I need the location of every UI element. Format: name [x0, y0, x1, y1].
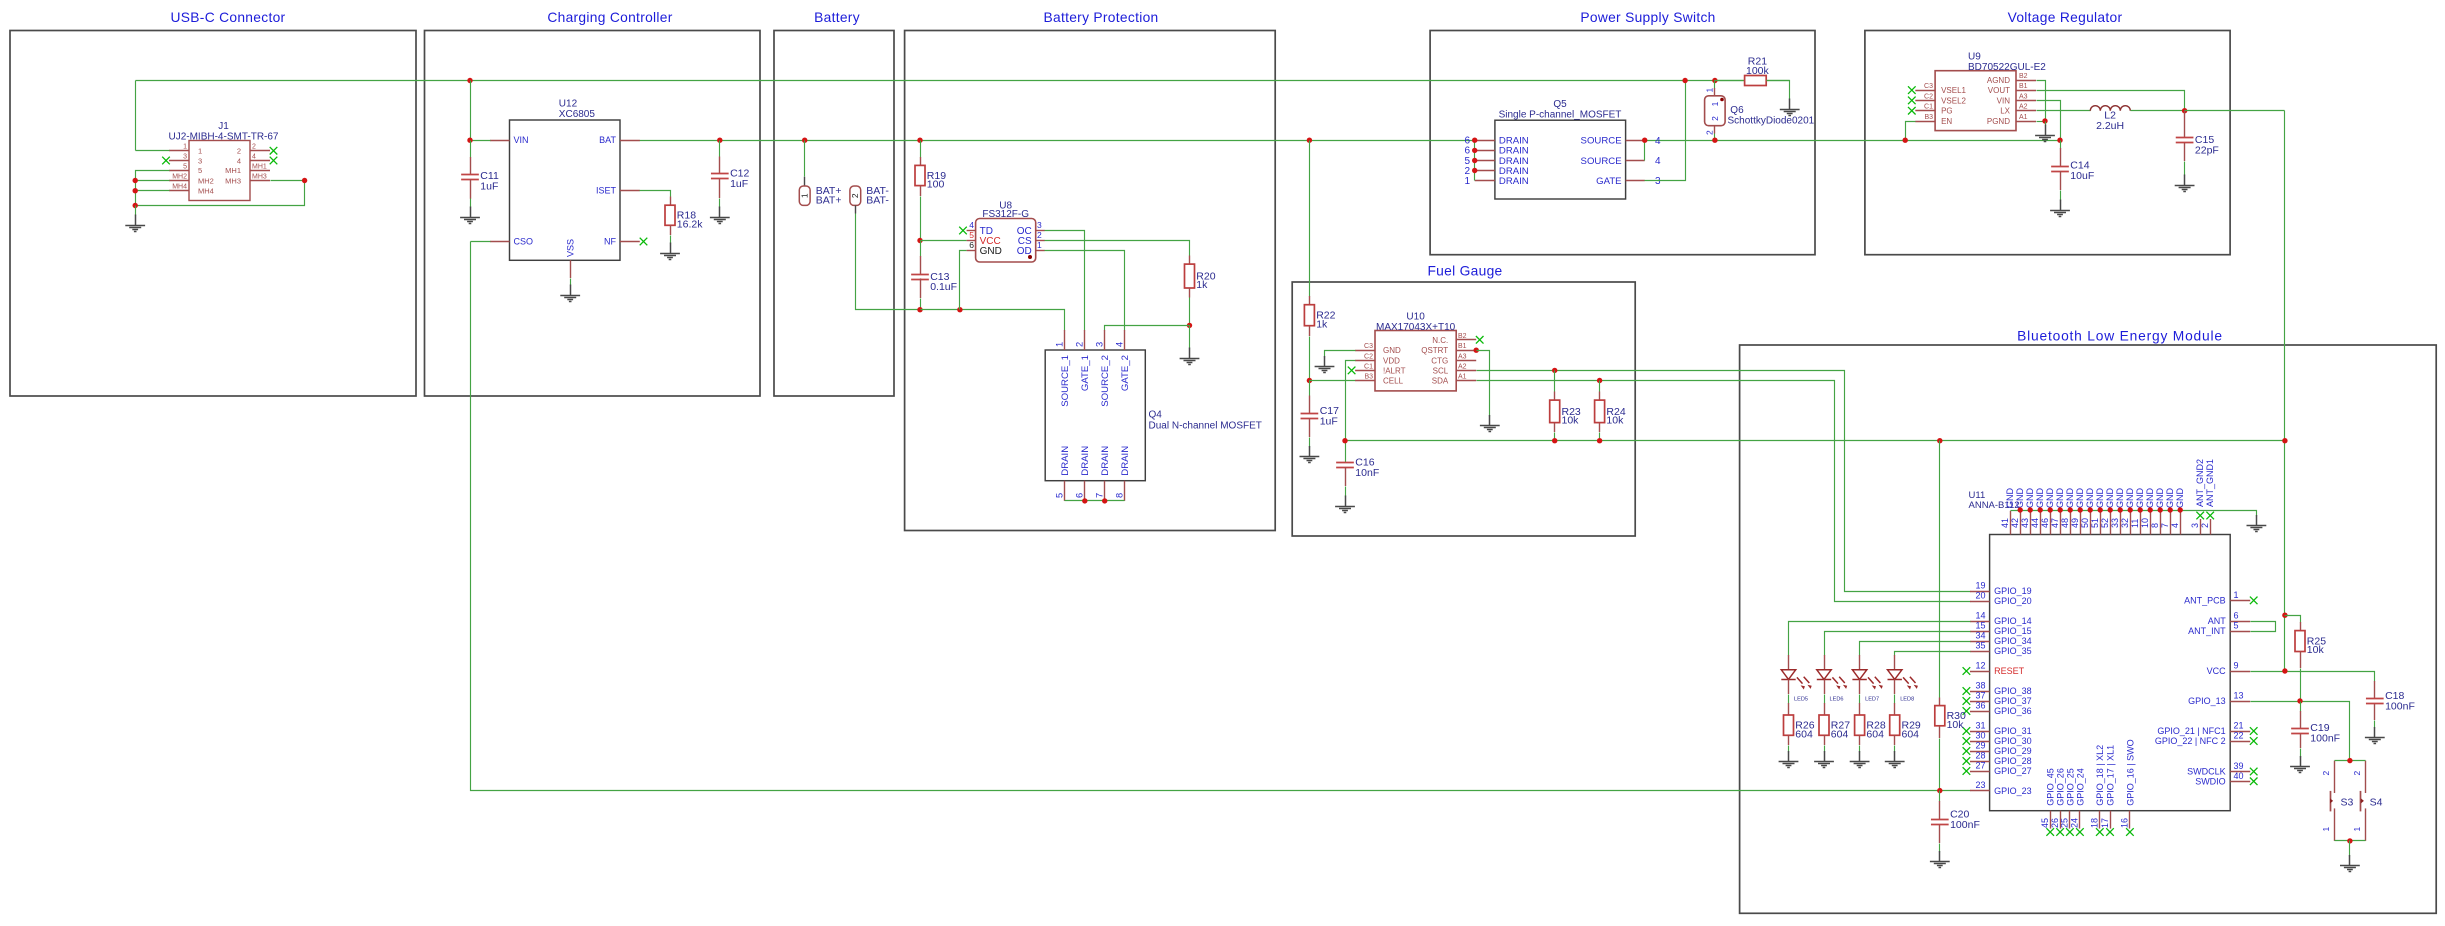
LED LED8: [1888, 655, 1918, 704]
Q5 left pin 6 DRAIN: [1464, 146, 1528, 157]
node GND pin junction 11: [2138, 507, 2143, 512]
svg-text:LX: LX: [2000, 107, 2010, 116]
svg-text:GND: GND: [2085, 488, 2095, 509]
node GND pin junction 43: [2028, 507, 2033, 512]
resistor R23: [1550, 371, 1581, 441]
svg-text:100nF: 100nF: [1950, 819, 1980, 831]
capacitor C12: [711, 141, 750, 208]
node GND pin junction 7: [2168, 507, 2173, 512]
wire switches to ground: [2349, 841, 2351, 857]
svg-text:GPIO_36: GPIO_36: [1994, 706, 2032, 716]
wire VDD riser: [1346, 361, 1356, 463]
svg-text:J1: J1: [218, 121, 229, 132]
node C13 bottom junction: [917, 307, 922, 312]
resistor R29: [1890, 703, 1921, 753]
U11 top pin 49 GND: [2070, 488, 2085, 535]
U10 designator: [1376, 312, 1456, 334]
resistor R18: [665, 197, 703, 236]
svg-text:C2: C2: [1364, 353, 1373, 360]
svg-text:VOUT: VOUT: [1988, 86, 2010, 95]
svg-text:0.1uF: 0.1uF: [930, 281, 957, 293]
svg-text:604: 604: [1831, 728, 1849, 740]
svg-text:GND: GND: [2145, 488, 2155, 509]
section frame Voltage Regulator: [1865, 10, 2230, 255]
wire CSO stub: [471, 241, 491, 243]
svg-text:100k: 100k: [1746, 65, 1770, 77]
regulator U9 body: [1935, 71, 2016, 131]
svg-text:41: 41: [2000, 518, 2010, 528]
U11 left pin 34 GPIO_34: [1970, 631, 2032, 647]
svg-text:4: 4: [252, 154, 256, 161]
svg-text:29: 29: [1975, 741, 1985, 751]
svg-text:GPIO_14: GPIO_14: [1994, 616, 2032, 626]
node LX output junction: [2182, 108, 2187, 113]
node Q5 source junction: [1642, 138, 1647, 143]
wire BAT to C12 (rail part): [717, 138, 722, 143]
U11 top pin 46 GND: [2040, 488, 2055, 535]
svg-text:Dual N-channel MOSFET: Dual N-channel MOSFET: [1149, 420, 1262, 431]
wire SCL net fuel gauge to GPIO_19: [1477, 371, 1971, 592]
svg-text:LED7: LED7: [1865, 697, 1879, 703]
wire VBUS top rail: [136, 80, 1790, 82]
node R23 top junction: [1552, 368, 1557, 373]
J1 right pin MH3: [225, 174, 270, 186]
svg-text:1uF: 1uF: [480, 180, 498, 192]
svg-text:GPIO_23: GPIO_23: [1994, 786, 2032, 796]
U12 pin VIN: [490, 135, 529, 145]
node R22 top junction on BAT rail: [1307, 138, 1312, 143]
U12 pin CSO: [490, 237, 533, 247]
svg-text:4: 4: [1655, 156, 1661, 167]
svg-text:3: 3: [1095, 342, 1105, 347]
U11 right pin 9 VCC: [2207, 661, 2251, 677]
wire BAT rail to R22: [1309, 141, 1311, 297]
svg-text:BAT-: BAT-: [866, 194, 889, 206]
Q4 top pin 3 SOURCE_2: [1095, 330, 1112, 407]
U11 top pin 33 GND: [2110, 488, 2125, 535]
diode Q6 top lead: [1714, 81, 1716, 96]
svg-text:GPIO_34: GPIO_34: [1994, 636, 2032, 646]
svg-text:ANT_PCB: ANT_PCB: [2184, 596, 2226, 606]
wire R19 to VCC node: [920, 197, 922, 241]
connector BAT- pin 2: [850, 185, 889, 207]
wire Q4 drain bus: [1065, 500, 1125, 502]
node switch bottom junction: [2347, 838, 2352, 843]
wire VCC horizontal net y=440.7: [1346, 440, 2285, 442]
svg-text:2: 2: [850, 193, 860, 198]
svg-text:35: 35: [1975, 641, 1985, 651]
wire CELL to U10: [1310, 380, 1356, 382]
wire U8 VCC: [921, 240, 967, 242]
svg-text:ANT_INT: ANT_INT: [2188, 626, 2226, 636]
svg-text:5: 5: [198, 166, 202, 175]
node VIN junction: [467, 138, 472, 143]
svg-text:31: 31: [1975, 721, 1985, 731]
U11 top pin 7 GND: [2160, 488, 2175, 535]
svg-text:C3: C3: [1924, 83, 1933, 90]
svg-text:GND: GND: [2035, 488, 2045, 509]
capacitor C18: [2366, 681, 2415, 729]
svg-text:QSTRT: QSTRT: [1421, 346, 1448, 355]
U12 no-connect NF: [640, 238, 648, 246]
svg-text:1: 1: [1037, 240, 1042, 250]
svg-text:MAX17043X+T10: MAX17043X+T10: [1376, 322, 1456, 333]
J1 left pin MH4: [169, 184, 214, 196]
svg-text:1: 1: [2234, 590, 2239, 600]
charging controller U12 body: [510, 120, 621, 260]
U8 pin VCC: [967, 230, 1001, 247]
wire R21 to ground: [1767, 81, 1790, 100]
svg-text:Q5: Q5: [1553, 99, 1567, 110]
node Q5 drain junction 2: [1472, 168, 1477, 173]
svg-text:C2: C2: [1924, 93, 1933, 100]
svg-text:37: 37: [1975, 691, 1985, 701]
svg-text:1uF: 1uF: [730, 178, 748, 190]
ground R18: [660, 243, 680, 260]
wire VSS to ground: [570, 279, 572, 286]
svg-text:28: 28: [1975, 751, 1985, 761]
connector J1 body: [189, 141, 250, 201]
svg-text:2: 2: [1704, 130, 1714, 135]
svg-text:4: 4: [969, 220, 974, 230]
U12 pin NF: [604, 237, 640, 247]
svg-text:46: 46: [2040, 518, 2050, 528]
wire junction to Q4 source2: [1105, 326, 1190, 331]
svg-text:48: 48: [2060, 518, 2070, 528]
ground C12: [710, 207, 730, 224]
U11 bottom pin 24 GPIO_24: [2070, 768, 2086, 836]
svg-text:GATE_2: GATE_2: [1120, 355, 1131, 391]
ground R28: [1850, 751, 1870, 768]
U9 right pin A1 PGND: [1987, 114, 2036, 126]
section frame Battery: [774, 10, 894, 396]
svg-text:Charging Controller: Charging Controller: [547, 10, 672, 25]
svg-text:5: 5: [969, 230, 974, 240]
svg-text:2: 2: [1075, 342, 1085, 347]
svg-text:51: 51: [2090, 518, 2100, 528]
svg-text:S3: S3: [2341, 797, 2354, 809]
svg-text:Q6: Q6: [1730, 105, 1744, 116]
svg-text:C1: C1: [1364, 363, 1373, 370]
svg-text:GND: GND: [2175, 488, 2185, 509]
U11 right pin 40 SWDIO: [2195, 771, 2257, 787]
svg-text:DRAIN: DRAIN: [1060, 446, 1071, 476]
svg-text:24: 24: [2070, 818, 2080, 828]
node VCC wire to rail junction: [2282, 438, 2287, 443]
U8 no-connect TD: [959, 227, 967, 235]
U11 left pin 36 GPIO_36: [1963, 701, 2032, 717]
U12 pin BAT: [599, 135, 640, 145]
svg-text:MH3: MH3: [252, 174, 267, 181]
wire AGND loop to PGND: [2037, 81, 2046, 122]
node R30 top junction: [1937, 438, 1942, 443]
svg-text:5: 5: [183, 163, 187, 170]
svg-text:MH4: MH4: [172, 184, 187, 191]
resistor R26: [1784, 703, 1815, 753]
ground C19: [2290, 756, 2310, 773]
svg-text:4: 4: [2170, 523, 2180, 528]
svg-text:GND: GND: [2155, 488, 2165, 509]
node J1 MH3 corner: [302, 178, 307, 183]
svg-text:GND: GND: [2075, 488, 2085, 509]
svg-text:B1: B1: [1458, 343, 1467, 350]
svg-text:ANT: ANT: [2208, 616, 2227, 626]
wire GPIO to LED6: [1825, 632, 1971, 656]
svg-text:3: 3: [198, 156, 202, 165]
node Q4 drain junction 6: [1082, 498, 1087, 503]
svg-text:GPIO_27: GPIO_27: [1994, 766, 2032, 776]
svg-text:12: 12: [1975, 661, 1985, 671]
Q4 bottom pin 8 DRAIN: [1115, 446, 1132, 501]
Q4 designator: [1149, 410, 1262, 432]
svg-text:1: 1: [1710, 101, 1720, 106]
svg-text:3: 3: [183, 154, 187, 161]
svg-text:GND: GND: [2005, 488, 2015, 509]
U10 no-connect N.C.: [1476, 336, 1484, 344]
svg-text:45: 45: [2040, 818, 2050, 828]
svg-text:B3: B3: [1924, 114, 1933, 121]
svg-text:6: 6: [2234, 611, 2239, 621]
resistor R25: [2295, 622, 2326, 702]
svg-text:SOURCE: SOURCE: [1581, 136, 1622, 147]
svg-text:GPIO_16 | SWO: GPIO_16 | SWO: [2125, 739, 2135, 805]
node R23 bottom junction: [1552, 438, 1557, 443]
svg-text:36: 36: [1975, 701, 1985, 711]
svg-text:19: 19: [1975, 581, 1985, 591]
U8 designator: [982, 201, 1029, 221]
node GND pin junction 8: [2158, 507, 2163, 512]
svg-text:7: 7: [2160, 523, 2170, 528]
svg-text:B2: B2: [2019, 73, 2028, 80]
svg-text:Battery: Battery: [814, 10, 860, 25]
U11 bottom pin 26 GPIO_26: [2050, 768, 2066, 836]
wire VIN pin stub: [471, 140, 491, 142]
Q5 left pin 2 DRAIN: [1464, 166, 1528, 177]
svg-text:C3: C3: [1364, 343, 1373, 350]
svg-text:A1: A1: [1458, 374, 1467, 381]
wire BAT- stem down: [856, 205, 921, 309]
U11 left pin 38 GPIO_38: [1963, 681, 2032, 697]
wire VOUT to LX node: [2037, 91, 2185, 111]
U10 left pin C2 VDD: [1355, 353, 1400, 365]
capacitor C20: [1931, 791, 1980, 853]
BLE module U11 body: [1990, 535, 2231, 811]
wire CS to R20: [1045, 241, 1190, 256]
svg-text:25: 25: [2060, 818, 2070, 828]
wire R22 to CELL node: [1309, 337, 1311, 381]
svg-text:23: 23: [1975, 780, 1985, 790]
svg-text:Fuel Gauge: Fuel Gauge: [1427, 264, 1502, 279]
U11 right pin 6 ANT: [2208, 611, 2251, 627]
svg-text:30: 30: [1975, 731, 1985, 741]
U10 right pin B2 N.C.: [1432, 333, 1476, 345]
ground U12 VSS: [560, 285, 580, 302]
svg-text:16: 16: [2120, 818, 2130, 828]
wire VCC pin net: [2251, 672, 2375, 682]
U11 left pin 19 GPIO_19: [1970, 581, 2032, 597]
node GATE riser junction: [1682, 78, 1687, 83]
svg-text:1: 1: [2321, 827, 2331, 832]
node GND pin junction 32: [2128, 507, 2133, 512]
node R24 bottom junction: [1597, 438, 1602, 443]
wire PGND to ground: [2045, 122, 2047, 126]
svg-text:1: 1: [183, 144, 187, 151]
LED LED5: [1781, 655, 1811, 704]
inductor L2: [2090, 106, 2130, 132]
svg-text:GND: GND: [2025, 488, 2035, 509]
svg-text:14: 14: [1975, 611, 1985, 621]
svg-text:GND: GND: [2045, 488, 2055, 509]
svg-text:SCL: SCL: [1433, 366, 1449, 375]
U12 pin VSS: [566, 239, 576, 278]
wire R20 bottom to junction: [1189, 298, 1191, 326]
svg-text:1: 1: [800, 193, 810, 198]
svg-text:GND: GND: [2105, 488, 2115, 509]
svg-text:9: 9: [2234, 661, 2239, 671]
svg-text:10k: 10k: [2307, 644, 2325, 656]
Q4 top pin 1 SOURCE_1: [1054, 330, 1071, 407]
node VCC rail junction: [2282, 668, 2287, 673]
svg-text:20: 20: [1975, 591, 1985, 601]
U11 right pin 21 GPIO_21 | NFC1: [2157, 721, 2257, 737]
svg-text:Battery Protection: Battery Protection: [1043, 10, 1158, 25]
svg-text:A3: A3: [2019, 93, 2028, 100]
U11 top pin 3 ANT_GND2: [2190, 459, 2205, 535]
svg-text:GPIO_30: GPIO_30: [1994, 736, 2032, 746]
svg-text:AGND: AGND: [1987, 76, 2010, 85]
wire QSTRT to ground: [1477, 351, 1490, 417]
svg-text:XC6805: XC6805: [559, 109, 596, 120]
U10 no-connect !ALRT: [1348, 367, 1356, 375]
node Q4 drain junction 7: [1102, 498, 1107, 503]
svg-text:6: 6: [969, 240, 974, 250]
Q4 top pin 2 GATE_1: [1075, 330, 1092, 391]
wire U11 GND bus: [2011, 511, 2257, 517]
svg-text:LED6: LED6: [1830, 697, 1844, 703]
svg-text:3: 3: [1655, 176, 1661, 187]
svg-text:604: 604: [1902, 728, 1920, 740]
node GND pin junction 52: [2108, 507, 2113, 512]
U11 top pin 43 GND: [2020, 488, 2035, 535]
svg-text:10: 10: [2140, 518, 2150, 528]
U11 top pin 52 GND: [2100, 488, 2115, 535]
wire ANT to ANT_INT loop: [2251, 622, 2276, 632]
ground U11 GND bus: [2247, 515, 2267, 532]
svg-text:100nF: 100nF: [2385, 701, 2415, 713]
svg-text:10k: 10k: [1947, 719, 1965, 731]
svg-text:50: 50: [2080, 518, 2090, 528]
resistor R19: [915, 141, 946, 197]
svg-text:2: 2: [252, 144, 256, 151]
svg-text:1: 1: [2352, 827, 2362, 832]
wire CSO to GPIO_23 long net: [471, 242, 1971, 791]
resistor R22: [1304, 296, 1335, 336]
section frame Power Supply Switch: [1430, 10, 1815, 255]
svg-text:38: 38: [1975, 681, 1985, 691]
svg-text:2: 2: [1037, 230, 1042, 240]
wire ISET to R18: [640, 191, 671, 197]
wire J1 ground bus left: [136, 171, 170, 206]
wire VCC to R30: [1939, 441, 1941, 698]
wire Q5 drain bus vertical: [1474, 141, 1476, 181]
U11 left pin 35 GPIO_35: [1970, 641, 2032, 657]
section frame Fuel Gauge: [1292, 264, 1635, 537]
ground C14: [2050, 200, 2070, 217]
svg-text:100: 100: [927, 179, 945, 191]
svg-text:MH2: MH2: [172, 174, 187, 181]
svg-text:EN: EN: [1941, 117, 1952, 126]
svg-text:4: 4: [1115, 342, 1125, 347]
connector BAT+ pin 1: [799, 185, 841, 207]
ground R27: [1814, 751, 1834, 768]
connector J1 designator: [168, 121, 278, 143]
node J1 ground corner: [133, 203, 138, 208]
U8 pin OC: [1017, 220, 1045, 237]
svg-text:A3: A3: [1458, 353, 1467, 360]
svg-text:Voltage Regulator: Voltage Regulator: [2008, 10, 2123, 25]
svg-text:DRAIN: DRAIN: [1080, 446, 1091, 476]
ground C17: [1300, 446, 1320, 463]
Q4 top pin 4 GATE_2: [1115, 330, 1132, 391]
capacitor C13: [911, 256, 957, 310]
U11 bottom pin 16 GPIO_16 | SWO: [2120, 739, 2136, 835]
svg-text:GND: GND: [2165, 488, 2175, 509]
U8 pin GND: [967, 240, 1002, 257]
svg-text:49: 49: [2070, 518, 2080, 528]
U11 top pin 32 GND: [2120, 488, 2135, 535]
svg-text:MH1: MH1: [252, 163, 267, 170]
node GND pin junction 48: [2068, 507, 2073, 512]
svg-text:A1: A1: [2019, 114, 2028, 121]
svg-text:GPIO_31: GPIO_31: [1994, 726, 2032, 736]
svg-text:PG: PG: [1941, 107, 1953, 116]
svg-text:VSEL1: VSEL1: [1941, 86, 1966, 95]
svg-text:VDD: VDD: [1383, 356, 1400, 365]
svg-text:22: 22: [2234, 731, 2244, 741]
svg-text:3: 3: [1037, 220, 1042, 230]
wire LX to inductor: [2037, 110, 2091, 112]
svg-text:VIN: VIN: [1997, 96, 2011, 105]
ground U9 PGND: [2035, 125, 2055, 142]
transistor Q4 body: [1045, 350, 1145, 481]
svg-text:GND: GND: [2055, 488, 2065, 509]
diode Q6 body: [1705, 96, 1726, 126]
svg-text:8: 8: [1115, 493, 1125, 498]
node U8 VCC junction: [917, 238, 922, 243]
wire PGND stub: [2037, 121, 2046, 123]
node Q5 drain junction 5: [1472, 158, 1477, 163]
node GND pin junction 46: [2048, 507, 2053, 512]
U10 left pin C1 !ALRT: [1355, 363, 1406, 375]
U11 top pin 11 GND: [2130, 488, 2145, 535]
svg-text:10nF: 10nF: [1355, 467, 1379, 479]
J1 right pin MH1: [225, 163, 270, 175]
ground switches: [2340, 855, 2360, 872]
svg-text:16.2k: 16.2k: [677, 219, 703, 231]
svg-text:SOURCE_2: SOURCE_2: [1100, 355, 1111, 407]
ground C20: [1930, 851, 1950, 868]
U8 pin OD: [1017, 240, 1045, 257]
Q6 outer pin label 1: [1704, 88, 1714, 93]
ground J1: [125, 215, 145, 232]
svg-text:GPIO_21 | NFC1: GPIO_21 | NFC1: [2157, 726, 2225, 736]
U8 pin CS: [1018, 230, 1045, 247]
svg-text:26: 26: [2050, 818, 2060, 828]
Q4 bottom pin 5 DRAIN: [1054, 446, 1071, 501]
wire VCC node to C13: [920, 241, 922, 257]
svg-text:GPIO_25: GPIO_25: [2065, 768, 2075, 806]
svg-text:GPIO_26: GPIO_26: [2056, 768, 2066, 806]
